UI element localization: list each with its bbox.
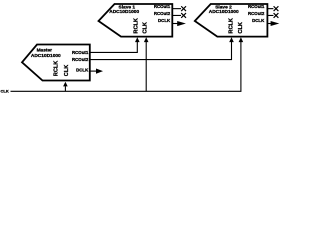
svg-text:CLK: CLK bbox=[238, 22, 244, 34]
svg-text:Master: Master bbox=[37, 48, 53, 54]
svg-text:DCLK: DCLK bbox=[158, 18, 171, 23]
svg-text:RCOut2: RCOut2 bbox=[248, 11, 265, 16]
svg-text:ADC10D1000: ADC10D1000 bbox=[109, 9, 139, 15]
svg-text:ADC10D1000: ADC10D1000 bbox=[31, 53, 61, 59]
svg-text:DCLK: DCLK bbox=[252, 18, 265, 23]
svg-text:RCOut1: RCOut1 bbox=[72, 50, 89, 55]
svg-text:RCOut2: RCOut2 bbox=[154, 11, 171, 16]
svg-text:RCLK: RCLK bbox=[229, 18, 235, 34]
svg-text:RCOut2: RCOut2 bbox=[72, 57, 89, 62]
svg-text:RCLK: RCLK bbox=[133, 18, 139, 34]
svg-text:RCLK: RCLK bbox=[53, 61, 59, 77]
svg-text:CLK: CLK bbox=[143, 22, 149, 34]
svg-text:ADC10D1000: ADC10D1000 bbox=[209, 9, 239, 15]
svg-text:RCOut1: RCOut1 bbox=[154, 4, 171, 9]
svg-text:CLK: CLK bbox=[1, 88, 9, 93]
svg-text:CLK: CLK bbox=[64, 65, 70, 77]
svg-text:DCLK: DCLK bbox=[76, 68, 89, 73]
svg-text:RCOut1: RCOut1 bbox=[248, 4, 265, 9]
